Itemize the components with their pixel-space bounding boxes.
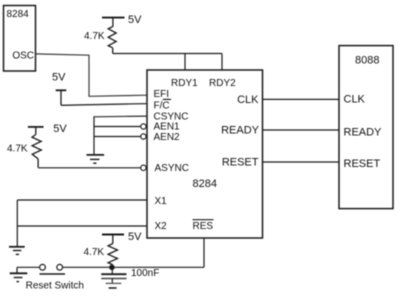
wire 5V to F/C pin [61, 104, 147, 106]
svg-text:X2: X2 [155, 221, 168, 232]
bubble ASYNC (active low) [141, 165, 146, 170]
svg-text:8284: 8284 [7, 9, 30, 20]
power 5V bar (left, for F/C) [56, 90, 67, 105]
svg-text:CLK: CLK [344, 93, 366, 105]
svg-text:RDY2: RDY2 [209, 78, 236, 89]
pin label READY (U1 right) [221, 125, 260, 137]
pin label READY (8088) [344, 126, 383, 138]
pin label X2 [155, 221, 168, 232]
wire RESET (U1 to 8088) [263, 161, 340, 163]
switch SW1 actuator bar [40, 273, 66, 275]
svg-text:CLK: CLK [237, 94, 259, 106]
label U2 "8088" [355, 54, 379, 66]
power 5V bar (left, above R2) [28, 127, 44, 135]
label 5V (left, F/C) [52, 71, 66, 83]
ground (CSYNC/AEN bus) [87, 155, 105, 163]
svg-text:EFI: EFI [154, 89, 170, 100]
junction node (RES/R3/C1) [109, 265, 115, 271]
pin label RDY1 [171, 78, 198, 89]
svg-text:RES: RES [193, 221, 214, 232]
wire CLK (U1 to 8088) [263, 98, 340, 100]
svg-text:READY: READY [221, 125, 260, 137]
resistor R1 4.7K (RDY pull-up) [108, 27, 116, 54]
svg-text:5V: 5V [128, 231, 142, 243]
ground (reset switch) [10, 267, 28, 281]
pin label X1 [155, 196, 168, 207]
svg-text:RDY1: RDY1 [171, 78, 198, 89]
pin label RESET (8088) [344, 158, 381, 170]
wire AEN1 to ground bus [94, 126, 141, 128]
svg-text:4.7K: 4.7K [7, 144, 28, 155]
wire X2 to left bus [17, 225, 147, 227]
switch SW1 terminal 2 [57, 264, 63, 270]
wire stub to RDY1 pin [184, 54, 186, 71]
pin label AEN2 [154, 132, 181, 143]
pin label OSC [12, 50, 34, 61]
pin label RES (overline) [193, 220, 214, 233]
resistor R2 4.7K (ASYNC pull-up) [32, 135, 41, 168]
pin label CLK (U1 right) [237, 94, 259, 106]
label R3 value 4.7K [84, 247, 105, 258]
label Reset Switch [26, 281, 84, 292]
wire OSC to EFI [36, 54, 148, 96]
pin label RESET (U1 right) [222, 157, 259, 169]
pin label AEN1 [154, 122, 181, 133]
svg-text:5V: 5V [52, 71, 66, 83]
label 5V (top) [128, 14, 142, 26]
wire switch to RES node [63, 266, 204, 268]
wire ground to switch terminal [17, 266, 40, 268]
oscillator box U3 8284 (top-left) [4, 6, 36, 72]
wire CSYNC to ground bus [94, 115, 147, 118]
label U1 "8284" [193, 178, 217, 190]
bubble AEN1 (active low) [141, 124, 146, 129]
label R2 value 4.7K [7, 144, 28, 155]
wire stub to RDY2 pin [221, 54, 223, 71]
pin label F/C (overline C) [154, 99, 172, 111]
svg-text:5V: 5V [53, 123, 67, 135]
label C1 value 100nF [131, 268, 159, 279]
svg-text:AEN2: AEN2 [154, 132, 181, 143]
svg-text:F/C: F/C [154, 101, 170, 112]
wire R2 to ASYNC pin [38, 167, 141, 169]
label R1 value 4.7K [84, 31, 105, 42]
label 5V (R3) [128, 231, 142, 243]
svg-text:RESET: RESET [344, 158, 381, 170]
svg-text:X1: X1 [155, 196, 168, 207]
ground (capacitor) [106, 279, 122, 289]
pin label RDY2 [209, 78, 236, 89]
svg-text:Reset Switch: Reset Switch [26, 281, 84, 292]
wire RES pin stub [203, 238, 205, 267]
label 5V (left, R2) [53, 123, 67, 135]
wire ground bus vertical [93, 116, 95, 155]
IC U1 8284 clock generator (main box) [147, 70, 263, 238]
IC U2 8088 CPU box [339, 46, 393, 209]
wire READY (U1 to 8088) [263, 129, 340, 131]
svg-text:5V: 5V [128, 14, 142, 26]
ground (X1/X2 bus) [9, 247, 25, 255]
pin label ASYNC [155, 163, 189, 174]
wire X1/X2 bus vertical [16, 200, 18, 247]
wire R1 to RDY1/RDY2 [113, 53, 222, 55]
svg-text:4.7K: 4.7K [84, 31, 105, 42]
svg-text:4.7K: 4.7K [84, 247, 105, 258]
switch SW1 terminal 1 [40, 264, 46, 270]
label U3 "8284" [7, 9, 30, 20]
wire X1 to left bus [17, 199, 147, 201]
svg-text:READY: READY [344, 126, 383, 138]
svg-text:8284: 8284 [193, 178, 217, 190]
bubble AEN2 (active low) [141, 134, 146, 139]
svg-text:AEN1: AEN1 [154, 122, 181, 133]
svg-text:100nF: 100nF [131, 268, 159, 279]
pin label CLK (8088) [344, 93, 366, 105]
svg-text:ASYNC: ASYNC [155, 163, 189, 174]
svg-text:OSC: OSC [12, 50, 34, 61]
resistor R3 4.7K (RES pull-up) [108, 244, 117, 265]
svg-text:RESET: RESET [222, 157, 259, 169]
wire AEN2 to ground bus [94, 136, 141, 138]
pin label CSYNC [154, 111, 189, 122]
power 5V bar (above R3) [102, 235, 124, 244]
pin label EFI [154, 89, 170, 100]
power 5V bar (top, above R1) [102, 18, 125, 27]
svg-text:8088: 8088 [355, 54, 379, 66]
capacitor C1 100nF [101, 267, 126, 278]
